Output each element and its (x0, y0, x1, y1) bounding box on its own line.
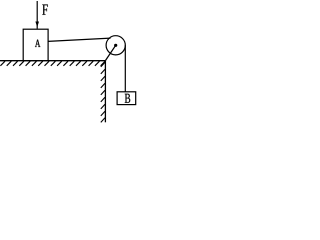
background (0, 0, 146, 126)
pulley wheel (106, 36, 125, 55)
label B (125, 94, 130, 103)
rope from A to pulley (48, 38, 111, 41)
pulley support rod (105, 45, 115, 60)
table right edge (104, 61, 106, 123)
label F (42, 5, 48, 15)
rope from pulley down to B (124, 45, 126, 92)
edge hatching (101, 62, 105, 122)
pulley axle dot (114, 44, 117, 47)
force arrow F shaft (36, 1, 38, 29)
label A (35, 40, 40, 47)
force arrow F head (35, 22, 39, 28)
table surface (0, 60, 105, 62)
surface hatching (0, 61, 105, 66)
block B (117, 92, 136, 105)
block A (23, 29, 48, 60)
